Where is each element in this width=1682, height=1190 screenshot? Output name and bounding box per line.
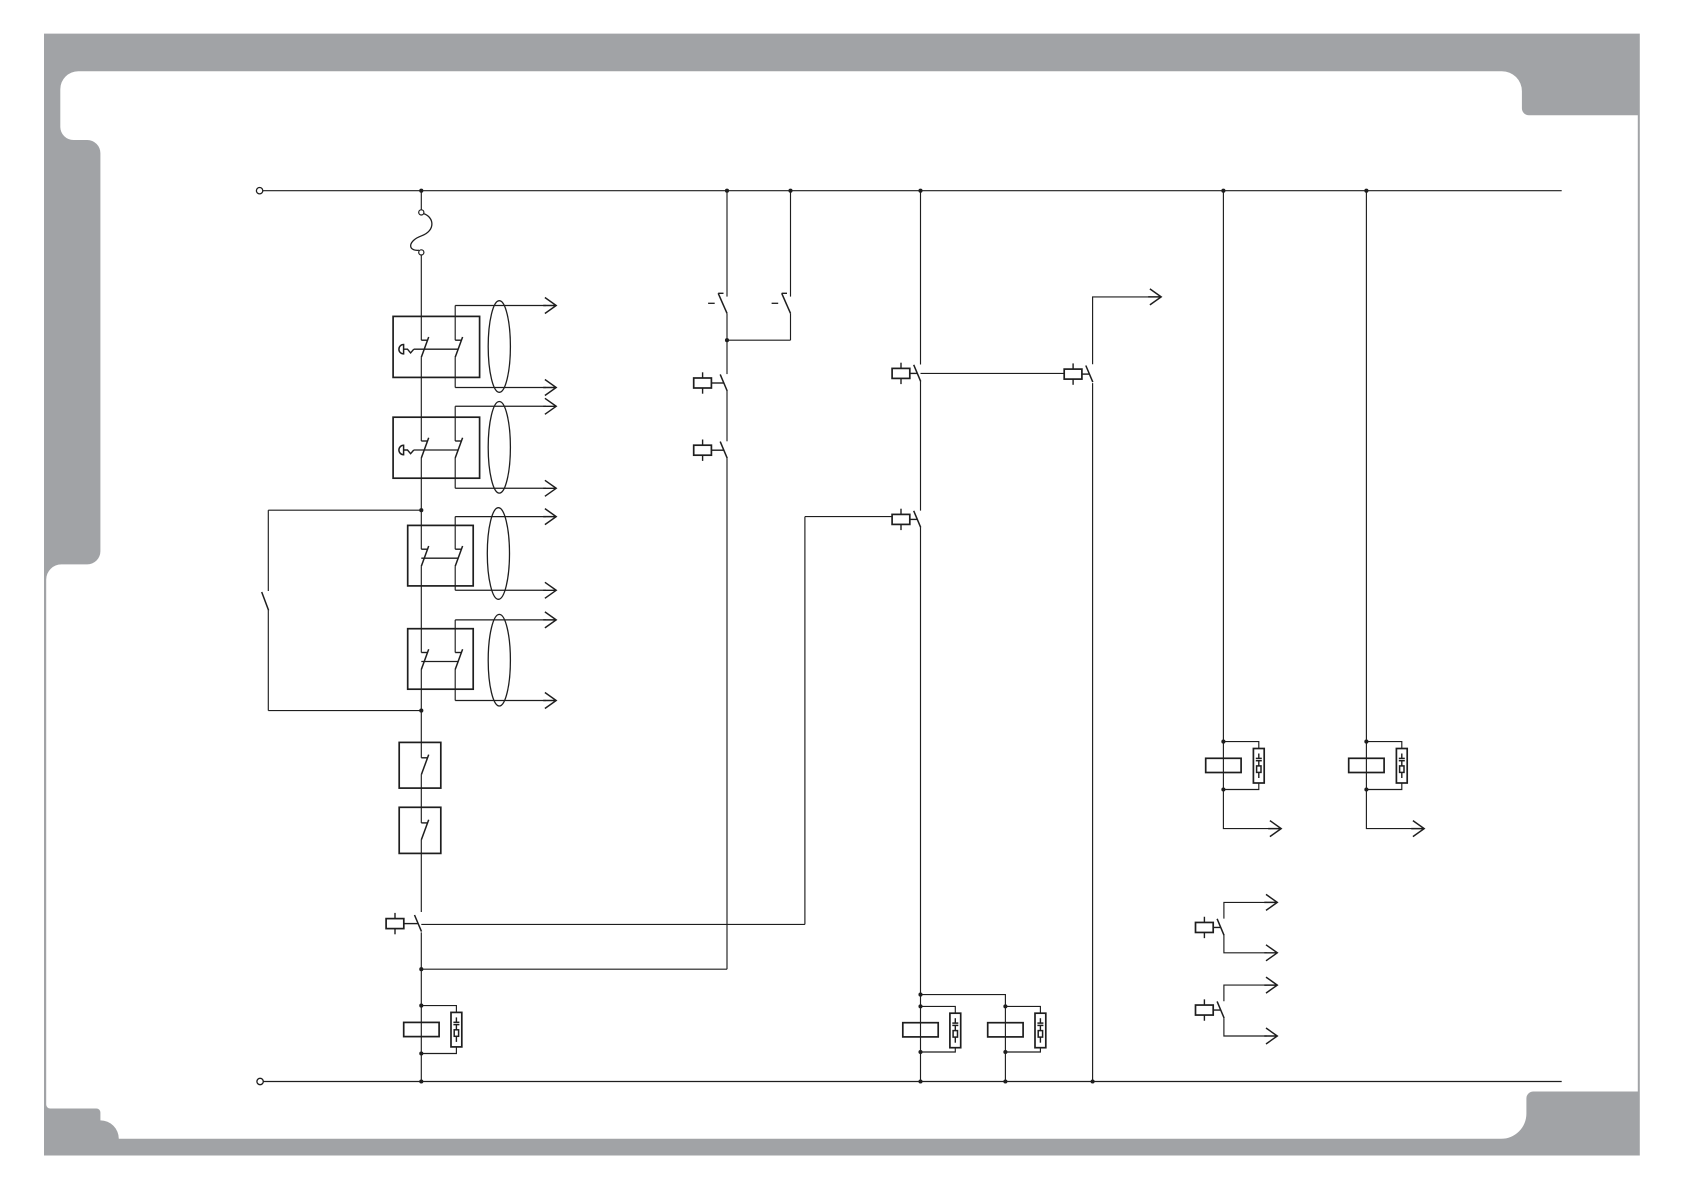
RC suppressor of relay K11: [950, 1013, 961, 1047]
wire below contact K4: [920, 381, 922, 510]
wire below contact B: [420, 840, 422, 912]
contact 2a on main wire: [421, 438, 428, 458]
blade of auxiliary contact K5: [415, 915, 422, 932]
wire S2 to junction: [790, 313, 792, 340]
node L1 terminal (top rail left circle): [256, 188, 262, 194]
wire between contact A and box B: [420, 775, 422, 823]
arrow contact K16 top: [1264, 977, 1277, 993]
junction bottom of relay K12: [1003, 1050, 1007, 1054]
coil ellipse unit 3: [487, 508, 509, 600]
switch S1: [718, 293, 727, 313]
junction top of relay K13: [1221, 740, 1225, 744]
mechanical linkage line unit 1: [414, 348, 459, 350]
wire contact K3 down to K5 output line: [726, 458, 728, 969]
wire snubber branch of relay K12: [1005, 1006, 1040, 1052]
arrow output top unit 1: [543, 298, 556, 314]
wire output top line unit 2: [455, 405, 546, 407]
switch S3 (bypass): [262, 592, 269, 610]
switch S2: [782, 293, 791, 313]
wire output branch upper (unit 2): [454, 406, 456, 441]
interlock contact box A: [399, 742, 441, 788]
wire riser to contact K7 box: [805, 516, 892, 518]
wire output bottom line unit 1: [455, 387, 546, 389]
junction S1/S2: [725, 338, 729, 342]
wire fuse to contact K1: [420, 255, 422, 340]
wire through relay K13 coil: [1222, 742, 1224, 790]
junction bottom of relay K14: [1364, 787, 1368, 791]
arrow relay K13 output: [1268, 821, 1281, 837]
relay unit 2 enclosure box: [393, 417, 480, 478]
wire output branch upper (unit 4): [454, 620, 456, 653]
key-operated actuator of unit 1: [399, 345, 414, 354]
arrow output top unit 3: [543, 509, 556, 525]
actuator box of contact K15: [1196, 917, 1221, 938]
junction main wire / bypass bottom: [419, 709, 423, 713]
contact 3a on main wire: [421, 546, 428, 566]
blade of contact K16: [1217, 1001, 1224, 1018]
wire right riser up: [804, 517, 806, 925]
coil of relay K14: [1349, 758, 1384, 772]
junction top of relay K11: [918, 1004, 922, 1008]
wire rail down to contact K4: [920, 191, 922, 365]
junction K10 at bottom rail: [419, 1079, 423, 1083]
wire main below contact 3a: [420, 566, 422, 652]
wire contact K16 bottom output: [1224, 1018, 1267, 1036]
wire output branch lower (unit 3): [454, 566, 456, 590]
blade of contact K4: [914, 365, 921, 382]
coil of relay K12: [988, 1023, 1023, 1037]
wire through relay K11 coil: [920, 995, 922, 1052]
mechanical linkage line unit 4: [421, 661, 458, 663]
wire coil pair bridge: [921, 995, 1006, 1007]
junction bottom of relay K13: [1221, 787, 1225, 791]
node N terminal (bottom rail left circle): [257, 1078, 263, 1084]
wire rail down to switch S1: [726, 191, 728, 297]
wire S2 branch horizontal: [727, 339, 791, 341]
actuator box of auxiliary contact K5: [386, 913, 418, 934]
blade of contact K3: [720, 442, 727, 459]
arrow output bottom unit 2: [543, 480, 556, 496]
junction bottom of relay K10: [419, 1051, 423, 1055]
wire main below contact 1a: [420, 357, 422, 441]
wire K12 to bottom rail: [1004, 1052, 1006, 1082]
wire output bottom line unit 4: [455, 700, 546, 702]
junction rail / column S2: [788, 189, 792, 193]
wire below contact K6 to bottom rail: [1092, 383, 1094, 1081]
contact A on main wire: [421, 755, 428, 775]
arrow output bottom unit 4: [543, 693, 556, 709]
actuator box of contact K16: [1196, 999, 1221, 1020]
wire through relay K14 coil: [1365, 742, 1367, 790]
wire output branch lower (unit 1): [454, 357, 456, 387]
arrow output top unit 4: [543, 612, 556, 628]
wire main down to interlock boxes: [420, 711, 422, 758]
wire snubber branch of relay K13: [1223, 742, 1258, 790]
junction rail / column K4: [918, 189, 922, 193]
coupling dash S2: [772, 302, 779, 304]
relay unit 4 enclosure box: [408, 629, 474, 690]
wire K4 output to K6: [921, 372, 1065, 374]
contact 4a on main wire: [421, 649, 428, 669]
actuator box of contact K3: [694, 440, 724, 461]
junction rail / column relay K13: [1221, 189, 1225, 193]
wire bypass left upper vertical: [267, 510, 269, 591]
blade of contact K2: [720, 374, 727, 391]
wire main below contact 4a: [420, 670, 422, 711]
contact 3b on output branch: [455, 546, 462, 566]
junction coil pair feed: [918, 993, 922, 997]
junction rail / column S1: [725, 189, 729, 193]
mechanical linkage line unit 3: [421, 557, 458, 559]
arrow relay K14 output: [1411, 821, 1424, 837]
mechanical linkage line unit 2: [414, 449, 459, 451]
coil of relay K11: [903, 1023, 938, 1037]
coil ellipse unit 1: [488, 301, 510, 393]
wire rail to fuse F1: [420, 191, 422, 210]
key-operated actuator of unit 2: [399, 445, 414, 454]
wire bypass bottom horizontal: [268, 710, 421, 712]
RC suppressor of relay K13: [1253, 749, 1264, 784]
wire main below contact 2a: [420, 458, 422, 549]
wire relay K14 output down: [1366, 790, 1413, 829]
coil of relay K10: [404, 1022, 439, 1036]
actuator box of contact K7: [892, 509, 917, 530]
wire output bottom line unit 3: [455, 589, 546, 591]
coil ellipse unit 2: [488, 402, 510, 494]
coil ellipse unit 4: [488, 614, 510, 706]
RC suppressor of relay K12: [1035, 1013, 1046, 1047]
wire bypass top horizontal: [268, 509, 421, 511]
contact B on main wire: [421, 820, 428, 840]
wire relay K13 output down: [1223, 790, 1270, 829]
junction bottom of relay K11: [918, 1050, 922, 1054]
junction main wire / bypass top: [419, 508, 423, 512]
fuse F1 (flexible link symbol): [411, 210, 432, 255]
wire K6 output up: [1093, 297, 1151, 364]
coil of relay K13: [1206, 758, 1241, 772]
contact 1b on output branch: [455, 337, 462, 357]
wire below contact K7: [920, 527, 922, 994]
actuator box of contact K2: [694, 372, 724, 393]
junction K5 output wire: [419, 967, 423, 971]
relay unit 3 enclosure box: [408, 525, 474, 586]
wire output top line unit 4: [455, 619, 546, 621]
wire rail down to switch S2: [790, 191, 792, 297]
wire contact K15 bottom output: [1224, 936, 1267, 953]
wire top supply rail: [263, 190, 1562, 192]
wire rail down to relay K14: [1365, 191, 1367, 742]
arrow K6 output: [1148, 289, 1161, 305]
arrow output bottom unit 1: [543, 380, 556, 396]
wire junction down to contact K2: [726, 340, 728, 374]
wire K5 output horizontal: [421, 968, 727, 970]
arrow contact K16 bottom: [1264, 1028, 1277, 1044]
actuator box of contact K6: [1064, 363, 1089, 384]
wire below contact K5: [420, 932, 422, 1081]
wire output branch lower (unit 2): [454, 458, 456, 488]
wire output branch lower (unit 4): [454, 670, 456, 701]
junction rail / column relay K14: [1364, 189, 1368, 193]
junction K11 at bottom rail: [918, 1079, 922, 1083]
interlock contact box B: [399, 807, 441, 853]
junction K12 at bottom rail: [1003, 1079, 1007, 1083]
blade of contact K15: [1217, 919, 1224, 936]
junction top of relay K10: [419, 1004, 423, 1008]
wire output branch upper (unit 1): [454, 306, 456, 341]
wire output top line unit 3: [455, 516, 546, 518]
wire through relay K12 coil: [1004, 1006, 1006, 1052]
wire contact K15 top output: [1224, 902, 1267, 918]
wire output bottom line unit 2: [455, 487, 546, 489]
junction top of relay K14: [1364, 740, 1368, 744]
wire contact K2 to contact K3: [726, 391, 728, 441]
wire snubber branch of relay K11: [921, 1006, 956, 1052]
wire K11 to bottom rail: [920, 1052, 922, 1082]
arrow output top unit 2: [543, 398, 556, 414]
junction top rail / fuse branch: [419, 189, 423, 193]
RC suppressor of relay K14: [1396, 749, 1407, 784]
wire output branch upper (unit 3): [454, 517, 456, 550]
wire from K5 to right riser: [421, 923, 805, 925]
contact 2b on output branch: [455, 438, 462, 458]
actuator box of contact K4: [892, 363, 917, 384]
junction top of relay K12: [1003, 1004, 1007, 1008]
arrow output bottom unit 3: [543, 582, 556, 598]
contact 4b on output branch: [455, 649, 462, 669]
wire snubber branch of relay K10: [421, 1006, 456, 1054]
arrow contact K15 bottom: [1264, 945, 1277, 961]
junction K6 at bottom rail: [1091, 1079, 1095, 1083]
coupling dash S1: [708, 302, 715, 304]
wire S1 to junction: [726, 313, 728, 340]
blade of contact K6: [1086, 366, 1093, 383]
RC suppressor of relay K10: [451, 1012, 462, 1047]
arrow contact K15 top: [1264, 894, 1277, 910]
wire snubber branch of relay K14: [1366, 742, 1401, 790]
wire output top line unit 1: [455, 305, 546, 307]
wire bottom supply rail: [263, 1081, 1561, 1083]
contact 1a on main wire: [421, 337, 428, 357]
wire contact K16 top output: [1224, 985, 1267, 1001]
wire bypass left lower vertical: [267, 610, 269, 710]
wire rail down to relay K13: [1222, 191, 1224, 742]
blade of contact K7: [914, 511, 921, 528]
relay unit 1 enclosure box: [393, 316, 480, 377]
